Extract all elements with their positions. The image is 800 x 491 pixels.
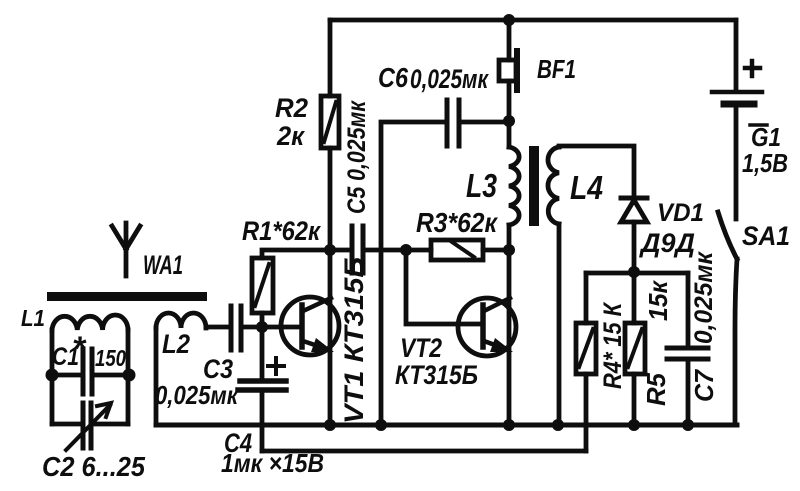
svg-text:R1*62к: R1*62к: [242, 216, 321, 246]
node: VT1 emitter on bus: [324, 419, 336, 431]
svg-text:R3*62к: R3*62к: [416, 207, 499, 238]
node: C6 / L3 / BF1: [503, 115, 515, 127]
wire: base from C3: [243, 325, 301, 330]
svg-text:0,025мк: 0,025мк: [155, 380, 240, 410]
label C7 (rotated): [689, 251, 719, 402]
svg-text:С5 0,025мк: С5 0,025мк: [343, 100, 371, 214]
node: L4 bottom on bus: [552, 419, 564, 431]
svg-text:VD1: VD1: [657, 199, 704, 227]
label G1 value: [742, 122, 788, 178]
label SA1: [742, 221, 790, 251]
wire: R2 bottom to collector node: [328, 148, 333, 250]
label C6 value: [378, 62, 489, 94]
capacitor C3: [229, 306, 234, 350]
node: top junction at BF1: [503, 14, 515, 26]
resistor R5: [632, 272, 637, 323]
label VT1 (rotated): [339, 257, 369, 424]
wire: VT2 base L-path: [406, 250, 482, 324]
svg-text:L1: L1: [21, 305, 45, 331]
svg-text:15к: 15к: [643, 279, 673, 321]
capacitor C4: [260, 327, 265, 381]
label L2: [162, 329, 190, 359]
svg-text:VT2: VT2: [400, 333, 442, 363]
wire: C5 right to node: [365, 248, 407, 253]
label R2 value: [275, 93, 308, 151]
label C1 value: [52, 330, 126, 371]
diode VD1: [621, 196, 647, 201]
wire: feedback return (C4 to R4): [262, 449, 586, 454]
svg-text:С6: С6: [378, 62, 408, 93]
node: C7 bottom on bus: [682, 419, 694, 431]
capacitor C6 branch wire: [381, 122, 445, 425]
svg-text:0,025мк: 0,025мк: [410, 64, 489, 94]
label R3 value: [416, 207, 499, 238]
label R5 (rotated): [641, 279, 673, 406]
svg-text:SA1: SA1: [742, 221, 790, 251]
wire: R1 top lead: [262, 250, 348, 258]
node: R5 bottom on bus: [628, 419, 640, 431]
resistor R3: [406, 248, 431, 253]
resistor R2: [321, 96, 339, 148]
earphone BF1: [507, 20, 512, 60]
wire: VT1 collector-emitter vertical: [328, 250, 333, 425]
node: C1 left: [46, 369, 59, 382]
svg-text:*: *: [72, 330, 87, 368]
label BF1: [537, 54, 576, 84]
node: R3 right on L3 line: [503, 244, 515, 256]
node: VD1 anode / detector: [628, 266, 640, 278]
node: C1 right: [123, 369, 136, 382]
label VD1: [639, 199, 704, 258]
svg-text:1,5В: 1,5В: [742, 148, 788, 178]
label VT2: [395, 333, 478, 390]
node: R3 left / VT2 base: [400, 244, 412, 256]
wire: R1 bottom lead: [260, 313, 265, 327]
label C5 value (rotated): [343, 100, 371, 214]
svg-text:L4: L4: [570, 169, 603, 206]
node: VT1 base / R1 / C4: [256, 321, 268, 333]
inductor L3: [507, 121, 512, 147]
wire: top supply rail: [330, 18, 736, 23]
label C2 value: [42, 451, 145, 482]
label R4 (rotated): [599, 302, 627, 389]
label L4: [570, 169, 603, 206]
svg-text:0,025мк: 0,025мк: [690, 251, 718, 344]
battery G1: [734, 20, 739, 90]
transistor VT1: [281, 297, 339, 355]
capacitor C6: [445, 100, 450, 146]
label L1: [21, 305, 45, 331]
antenna WA1: [124, 223, 129, 276]
inductor L2: [154, 328, 159, 425]
svg-text:BF1: BF1: [537, 54, 576, 84]
ferrite rod of magnetic antenna: [47, 292, 207, 301]
capacitor C5: [350, 226, 355, 273]
svg-text:КТ315Б: КТ315Б: [395, 360, 478, 390]
svg-text:L2: L2: [162, 329, 190, 359]
svg-text:VT1 КТ315Б: VT1 КТ315Б: [339, 257, 369, 424]
label L3: [466, 167, 497, 204]
wire: L4 top to VD1: [559, 146, 634, 196]
svg-text:С7: С7: [689, 369, 719, 402]
capacitor C1: [52, 373, 81, 378]
svg-text:С2 6...25: С2 6...25: [42, 451, 145, 482]
label R1 value: [242, 216, 321, 246]
svg-text:2к: 2к: [276, 121, 305, 151]
svg-text:WA1: WA1: [143, 250, 183, 280]
node: VT2 emitter on bus: [503, 419, 515, 431]
svg-text:Д9Д: Д9Д: [639, 228, 695, 258]
inductor L1: [50, 330, 55, 424]
svg-text:150: 150: [95, 345, 126, 371]
transformer core: [529, 146, 539, 226]
label C4 value: [221, 428, 324, 478]
switch SA1: [718, 212, 737, 259]
wire: detector network top: [586, 271, 688, 276]
capacitor C4 polarity plus: [268, 364, 284, 368]
wire: R2 top lead: [328, 20, 333, 96]
resistor R1: [252, 258, 273, 313]
inductor L4: [548, 147, 559, 224]
node: VT1 collector / R1 / C5: [324, 244, 336, 256]
svg-text:R2: R2: [275, 93, 308, 123]
wire: main ground bus: [156, 423, 737, 428]
transistor VT2: [458, 298, 516, 356]
label C3 value: [155, 354, 240, 410]
capacitor C2 variable: [52, 422, 81, 427]
resistor R4: [584, 273, 589, 323]
svg-text:R5: R5: [641, 372, 671, 406]
capacitor C7: [686, 273, 691, 346]
label WA1: [143, 250, 183, 280]
svg-text:L3: L3: [466, 167, 497, 204]
node: C6 branch on bus: [375, 419, 387, 431]
